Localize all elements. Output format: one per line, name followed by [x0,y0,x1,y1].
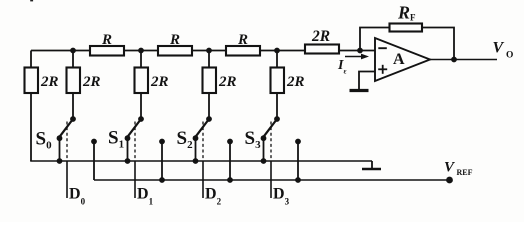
wire: bit0 2R branch [72,51,74,120]
svg-text:2R: 2R [40,74,59,90]
current arrow If [345,54,369,60]
node: summing junction [357,48,363,54]
control linkage S3 (dashed) [270,122,272,161]
node: S0 contact on ground bus [57,158,63,164]
node: S1 post on VREF bus [159,177,165,183]
switch S2 [193,116,212,141]
svg-text:2R: 2R [218,74,237,90]
resistor R (section 3) [226,46,260,56]
wire: VREF bus [94,179,450,181]
svg-text:R: R [237,32,248,48]
svg-text:REF: REF [457,168,473,177]
node: S2 post on VREF bus [227,177,233,183]
svg-text:2R: 2R [311,28,330,45]
switch S1 [125,116,144,141]
resistor 2R termination [25,68,39,94]
wire: S3 VREF contact post [295,139,301,180]
node: rail junction bit1 [138,48,144,54]
node: rail junction bit0 [70,48,76,54]
wire: output [430,59,497,61]
resistor RF [390,24,423,32]
wire: D2 control stub [202,161,204,198]
resistor R (section 1) [90,46,124,56]
wire: top ladder rail [31,50,375,52]
ground (op-amp non-inverting) [350,89,369,92]
wire: S0 left contact to ground bus [59,138,61,161]
switch S3 [261,116,280,141]
node: S3 contact on ground bus [261,158,267,164]
control linkage S0 (dashed) [66,122,68,161]
resistor 2R bit3 [271,68,285,94]
svg-text:2R: 2R [286,74,305,90]
svg-text:R: R [169,32,180,48]
node: S2 contact on ground bus [193,158,199,164]
svg-text:A: A [393,51,405,68]
resistor 2R bit1 [135,68,149,94]
resistor R (section 2) [158,46,192,56]
control linkage S1 (dashed) [134,122,136,161]
resistor 2R bit2 [203,68,217,94]
node: rail junction bit2 [206,48,212,54]
resistor 2R bit0 [67,68,81,94]
node: rail junction bit3 [274,48,280,54]
wire: S3 left contact to ground bus [263,138,265,161]
wire: D3 control stub [270,161,272,198]
control linkage S2 (dashed) [202,122,204,161]
svg-text:2R: 2R [150,74,169,90]
svg-text:O: O [506,51,513,61]
resistor 2R (series to op-amp) [305,45,339,54]
wire: S1 left contact to ground bus [127,138,129,161]
node: output junction [451,57,457,63]
node: S1 contact on ground bus [125,158,131,164]
wire: S1 VREF contact post [159,139,165,180]
wire: bit3 2R branch [276,51,278,120]
node: S3 post on VREF bus [295,177,301,183]
svg-text:2R: 2R [82,74,101,90]
wire: D1 control stub [134,161,136,198]
svg-text:V: V [493,40,505,57]
wire: ground bus [30,160,372,162]
wire: left termination branch [30,51,32,162]
wire: bit1 2R branch [140,51,142,120]
switch S0 [57,116,76,141]
wire: non-inverting input to ground [359,72,375,90]
wire: S0 VREF contact post [91,139,97,180]
svg-text:R: R [101,32,112,48]
node: VREF terminal [446,177,453,184]
wire: S2 left contact to ground bus [195,138,197,161]
op-amp A [375,38,430,81]
wire: D0 control stub [66,161,68,198]
wire: feedback loop [360,28,454,60]
ground (bus right end) [362,161,381,169]
wire: S2 VREF contact post [227,139,233,180]
wire: bit2 2R branch [208,51,210,120]
